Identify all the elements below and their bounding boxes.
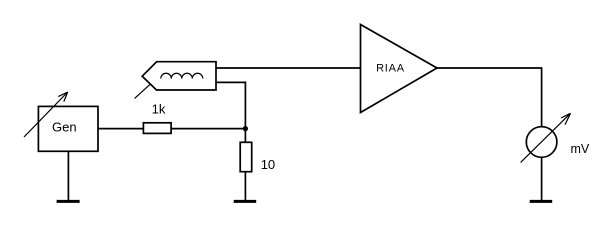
wire resistor 1k to node A [171,128,245,130]
node A junction dot [243,126,248,131]
wire pickup bottom terminal to node A [216,82,245,128]
svg-text:mV: mV [571,142,590,156]
generator variable arrow [24,92,68,137]
svg-text:RIAA: RIAA [376,63,405,75]
pickup coil [161,73,203,78]
meter arrow [521,113,571,162]
wire gen to resistor 1k [98,128,143,130]
pickup stylus line [135,84,151,99]
svg-text:1k: 1k [152,102,166,117]
wire node A to resistor 10 [244,129,246,143]
meter M1 circle [526,127,557,158]
ground (resistor 10) [234,200,257,203]
ground (meter) [530,200,553,203]
wire RIAA output to meter [437,68,542,127]
wire gen to ground [67,151,69,200]
resistor R2 10 [240,142,252,171]
wire resistor 10 to ground [244,172,246,200]
amplifier U1 RIAA triangle [361,25,438,113]
wire pickup top terminal to RIAA input [216,67,361,69]
generator G1 box [38,106,98,151]
svg-text:Gen: Gen [52,120,77,135]
wire meter to ground [541,157,543,200]
svg-text:10: 10 [261,157,275,172]
ground (gen) [57,200,80,203]
resistor R1 1k [143,123,171,134]
pickup cartridge PU1 body [142,62,216,90]
